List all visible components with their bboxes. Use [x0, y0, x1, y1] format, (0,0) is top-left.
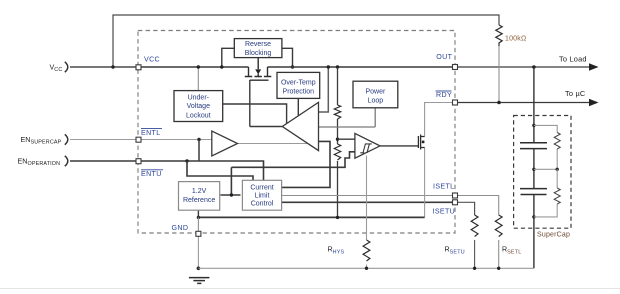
wire divider middle segment [337, 119, 339, 144]
wire comparator low input to current limit control [281, 141, 330, 187]
svg-text:ISETL: ISETL [433, 183, 454, 191]
pin GND [196, 231, 201, 236]
wire VCC rail inside (left of M1) [138, 66, 249, 68]
svg-text:Over-Temp: Over-Temp [281, 80, 316, 87]
transistor M1 reverse-blocking pass FET [245, 58, 271, 81]
resistor Rsetu [471, 215, 478, 236]
wire balance resistor upper leads [534, 125, 557, 169]
wire divider top lead [337, 67, 339, 105]
pin ENTL [136, 137, 141, 142]
block Current Limit Control [242, 180, 281, 210]
wire balance middle link [534, 168, 557, 170]
connector ENoperation input [65, 156, 68, 166]
svg-text:RDY: RDY [436, 91, 452, 99]
wire reference to current limit control [221, 194, 241, 196]
op-amp U1 main comparator [282, 102, 318, 150]
op-amp U3 hysteresis comparator [355, 133, 380, 158]
resistor balance upper [554, 133, 560, 150]
node ENsupercap junction [197, 138, 200, 141]
svg-text:Loop: Loop [368, 97, 384, 104]
wire Rsetl bottom lead [498, 240, 500, 268]
connector Vcc input [65, 62, 68, 72]
svg-text:GND: GND [172, 224, 189, 232]
svg-text:ENTL: ENTL [141, 129, 161, 137]
node RDY pull-up junction [497, 101, 501, 105]
svg-text:Current: Current [250, 184, 273, 191]
svg-text:To Load: To Load [559, 54, 587, 63]
pin RDY [453, 100, 458, 105]
block Under-Voltage Lockout [174, 91, 223, 122]
wire ENoperation branch to current limit control [187, 161, 253, 180]
IC dashed boundary [138, 31, 455, 234]
wire M2 source to GND rail [424, 148, 426, 218]
wire UVLO output to gate line [223, 103, 250, 105]
node supercap middle junction [532, 168, 535, 171]
wire reference box ground lead [197, 210, 199, 217]
svg-text:Limit: Limit [255, 193, 270, 200]
wire ISETU external to Rsetu [455, 202, 475, 215]
resistor 100k pull-up [496, 25, 502, 46]
pin ISETU [453, 200, 458, 205]
wire buffer output to comparator [238, 143, 308, 145]
arrow to uC [589, 99, 599, 106]
label pin ENTL [141, 129, 162, 137]
pin ISETL [453, 193, 458, 198]
wire ENoperation input run [70, 161, 264, 180]
pin OUT [453, 65, 458, 70]
wire GND pin lead [197, 217, 199, 233]
wire hysteresis amp output to M2 gate [380, 145, 418, 147]
node divider top junction [336, 65, 339, 68]
svg-text:VCC: VCC [144, 56, 160, 64]
svg-text:SuperCap: SuperCap [537, 231, 570, 238]
block Reverse Blocking [234, 39, 282, 58]
pin ENTU [136, 159, 141, 164]
node Rhys ground junction [365, 267, 368, 270]
node VCC junction [111, 65, 114, 68]
svg-text:ENTU: ENTU [141, 170, 162, 178]
svg-text:Reverse: Reverse [245, 41, 271, 48]
node rev-block left junction [220, 65, 223, 68]
page rule line [0, 288, 620, 290]
svg-text:100kΩ: 100kΩ [505, 36, 526, 43]
wire divider tap to hysteresis amp input [338, 138, 355, 140]
node ground junction [197, 267, 201, 271]
svg-text:Blocking: Blocking [245, 50, 272, 57]
node UVLO tap junction [197, 65, 200, 68]
wire UVLO supply tap [197, 67, 199, 91]
wire OUT rail inside (right of M1) [268, 66, 456, 68]
svg-text:ISETU: ISETU [433, 208, 456, 216]
pin VCC [136, 65, 141, 70]
node divider tap [336, 138, 339, 141]
wire bottom ground bus [198, 267, 533, 269]
wire divider bottom lead to GND rail [337, 161, 339, 217]
node balance middle junction [556, 168, 559, 171]
svg-text:Protection: Protection [283, 89, 315, 96]
svg-text:Under-: Under- [188, 95, 210, 102]
node supercap top junction [532, 124, 535, 127]
op-amp U2 enable buffer [212, 131, 238, 156]
node GND rail left junction [197, 216, 200, 219]
node Rsetu ground junction [473, 267, 476, 270]
svg-text:To µC: To µC [565, 89, 586, 98]
wire reverse-blocking box right lead [282, 48, 293, 67]
wire GND pin to ground node [197, 233, 199, 268]
resistor Rhys [363, 240, 370, 261]
supercap dashed enclosure [514, 116, 571, 229]
wire gate branch onto comparator body [250, 104, 287, 124]
svg-text:OUT: OUT [436, 53, 452, 61]
wire threshold line to hysteresis amp [231, 152, 355, 168]
svg-text:Lockout: Lockout [186, 112, 211, 119]
wire GND rail [198, 216, 424, 218]
svg-text:1.2V: 1.2V [192, 188, 207, 195]
node supercap feed junction [532, 65, 536, 69]
node comparator sense junction [327, 65, 330, 68]
ground [189, 278, 210, 284]
node rev-block right junction [291, 65, 294, 68]
node reference junction [230, 193, 233, 196]
resistor Rsetl [495, 215, 502, 236]
node supercap bottom junction [532, 215, 535, 218]
resistor balance lower [554, 188, 560, 204]
arrow to load [589, 63, 599, 70]
wire power loop to comparator [319, 108, 376, 127]
capacitor C1 [520, 143, 547, 149]
block Power Loop [353, 81, 398, 108]
wire over-temp output onto comparator body [297, 98, 299, 115]
resistor divider lower [334, 144, 340, 160]
block 1.2V Reference [179, 182, 220, 211]
wire ISETL from current limit control to pin [281, 195, 455, 197]
label pin RDY [436, 91, 453, 99]
svg-text:Reference: Reference [183, 197, 215, 204]
wire EN cross link [198, 140, 200, 162]
node Rsetl ground junction [497, 267, 500, 270]
wire ENsupercap input through pin to buffer [70, 139, 212, 141]
capacitor C2 [520, 189, 547, 195]
wire Rsetu bottom lead [474, 240, 476, 268]
wire M1 gate line down [249, 80, 251, 127]
wire balance resistor lower leads [534, 169, 557, 217]
resistor divider upper [334, 105, 340, 119]
wire RDY line to microcontroller [455, 102, 597, 104]
wire 100k pull-up lower lead [498, 46, 500, 103]
wire RDY pin to M2 drain [425, 103, 455, 137]
svg-text:Control: Control [251, 201, 274, 208]
svg-text:Voltage: Voltage [187, 103, 210, 110]
block Over-Temp Protection [277, 72, 320, 98]
wire supercap stack main [533, 67, 535, 268]
wire reverse-blocking box left lead [222, 48, 235, 67]
connector ENsupercap input [65, 134, 68, 144]
node ENoperation junction [185, 159, 188, 162]
wire reference riser [230, 167, 232, 195]
wire Rhys bottom lead [366, 265, 368, 269]
wire ISETU from current limit control to pin [281, 201, 455, 203]
wire comparator output to gate [250, 126, 282, 128]
wire top VCC branch up and across to 100k [113, 15, 499, 67]
node GND rail divider junction [336, 216, 339, 219]
svg-text:Power: Power [365, 89, 386, 96]
wire Rhys top lead [366, 156, 368, 241]
label pin ENTU [141, 170, 163, 178]
wire Vcc input to VCC pin [70, 66, 138, 68]
wire comparator plus sense from OUT rail [319, 67, 329, 112]
wire OUT pin to load [455, 66, 597, 68]
transistor M2 RDY open-drain FET [418, 135, 424, 150]
wire ISETL external to Rsetl [455, 196, 499, 216]
